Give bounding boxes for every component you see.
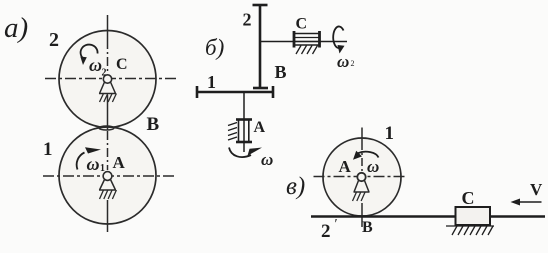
link 1 horizontal bar bbox=[197, 86, 273, 98]
svg-text:2: 2 bbox=[102, 68, 107, 79]
wheel 2 bbox=[59, 31, 156, 128]
horizontal centerline wheel v bbox=[314, 176, 408, 178]
svg-text:A: A bbox=[254, 119, 266, 136]
svg-text:2: 2 bbox=[351, 59, 355, 68]
vertical centerline wheel v bbox=[361, 128, 363, 228]
svg-text:ω: ω bbox=[89, 55, 102, 75]
wheel 1 bbox=[59, 127, 156, 224]
svg-text:ω: ω bbox=[367, 157, 379, 176]
svg-text:B: B bbox=[275, 62, 287, 82]
svg-text:B: B bbox=[147, 114, 160, 135]
svg-text:2: 2 bbox=[49, 29, 59, 51]
svg-text:в): в) bbox=[286, 173, 305, 200]
svg-text:C: C bbox=[462, 188, 475, 208]
slider C hatching bbox=[296, 46, 318, 55]
svg-text:1: 1 bbox=[43, 139, 53, 160]
velocity arrow V bbox=[511, 199, 542, 206]
pivot support A v bbox=[353, 173, 370, 201]
svg-text:ω: ω bbox=[87, 154, 100, 174]
wheel v1 bbox=[323, 138, 401, 216]
contact mark B bbox=[99, 126, 114, 130]
svg-text:C: C bbox=[296, 16, 308, 33]
horizontal centerline wheel 1 bbox=[43, 175, 175, 177]
rod down to slider A bbox=[243, 93, 245, 152]
svg-text:б): б) bbox=[205, 35, 224, 60]
svg-text:A: A bbox=[339, 157, 352, 176]
block C hatching bbox=[446, 226, 494, 235]
svg-text:1: 1 bbox=[207, 72, 216, 92]
svg-text:ω: ω bbox=[261, 150, 273, 169]
slider A hatching bbox=[228, 123, 237, 141]
svg-text:′: ′ bbox=[335, 217, 338, 232]
omega arrow wheel v bbox=[353, 151, 379, 160]
svg-text:B: B bbox=[362, 219, 373, 236]
vertical axis line a bbox=[107, 15, 109, 232]
horizontal centerline wheel 2 bbox=[45, 78, 177, 80]
svg-text:ω: ω bbox=[337, 52, 349, 71]
ground line 2' bbox=[311, 215, 545, 217]
omega1 arrow bbox=[77, 147, 101, 169]
omega2 arrow bbox=[80, 45, 97, 65]
omega arrow below A bbox=[229, 148, 262, 158]
slider A sleeve bbox=[236, 119, 252, 143]
svg-text:2: 2 bbox=[321, 221, 331, 242]
slider block C v bbox=[456, 207, 491, 225]
pivot support A bbox=[99, 172, 116, 199]
svg-text:C: C bbox=[116, 56, 128, 73]
svg-text:A: A bbox=[113, 153, 126, 172]
svg-text:a): a) bbox=[4, 12, 28, 44]
pivot support C bbox=[99, 75, 116, 102]
link 2 vertical bar bbox=[253, 5, 269, 88]
omega2 rotation arrow rod bbox=[333, 26, 344, 53]
svg-text:V: V bbox=[530, 180, 543, 199]
svg-text:1: 1 bbox=[385, 123, 395, 144]
svg-text:2: 2 bbox=[243, 10, 252, 30]
slider C sleeve bbox=[293, 31, 320, 48]
rod to slider C bbox=[261, 41, 347, 43]
